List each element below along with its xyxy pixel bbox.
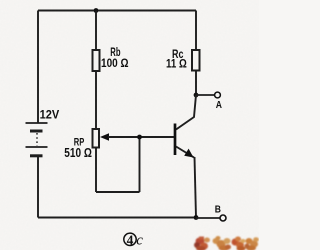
- resistor Rb body: [93, 50, 100, 71]
- potentiometer RP body: [93, 129, 100, 148]
- wire to terminal B: [196, 217, 220, 219]
- node junction wiper/base: [137, 135, 142, 140]
- wire Rc top lead: [195, 11, 197, 51]
- figure label circled 4: [124, 233, 136, 245]
- wire U bottom horizontal: [96, 191, 140, 193]
- wire Rc bottom to node A: [195, 71, 197, 96]
- transistor Q1 collector lead: [176, 95, 196, 130]
- node junction top (Rb tap): [94, 8, 99, 13]
- wire Rb bottom to RP top: [95, 71, 97, 129]
- wire Rb top lead: [95, 11, 97, 51]
- wire U right vertical up to wiper line: [139, 137, 141, 192]
- node junction collector / terminal A: [194, 93, 199, 98]
- watermark blob 2: [213, 236, 232, 250]
- RP wiper arrow: [100, 133, 109, 141]
- watermark blob 1: [194, 237, 210, 250]
- wire wiper to base: [108, 136, 175, 138]
- terminal B circle: [220, 215, 226, 221]
- wire left vertical (battery top lead): [37, 11, 39, 124]
- watermark (red/orange blurred characters): [194, 236, 259, 250]
- transistor Q1 emitter with arrow: [176, 147, 194, 158]
- resistor Rc body: [192, 50, 200, 71]
- wire to terminal A: [196, 94, 215, 96]
- wire bottom horizontal: [38, 217, 196, 219]
- node junction emitter / terminal B: [194, 215, 199, 220]
- transistor Q1 base bar: [174, 124, 177, 156]
- wire top horizontal: [38, 10, 196, 12]
- wire emitter down: [195, 157, 197, 218]
- wire battery bottom lead: [37, 157, 39, 218]
- watermark blob 4: [245, 237, 259, 250]
- wire RP bottom lead down: [95, 148, 97, 193]
- terminal A circle: [215, 92, 221, 98]
- watermark blob 3: [232, 237, 246, 250]
- battery BT1 12V: [26, 123, 48, 156]
